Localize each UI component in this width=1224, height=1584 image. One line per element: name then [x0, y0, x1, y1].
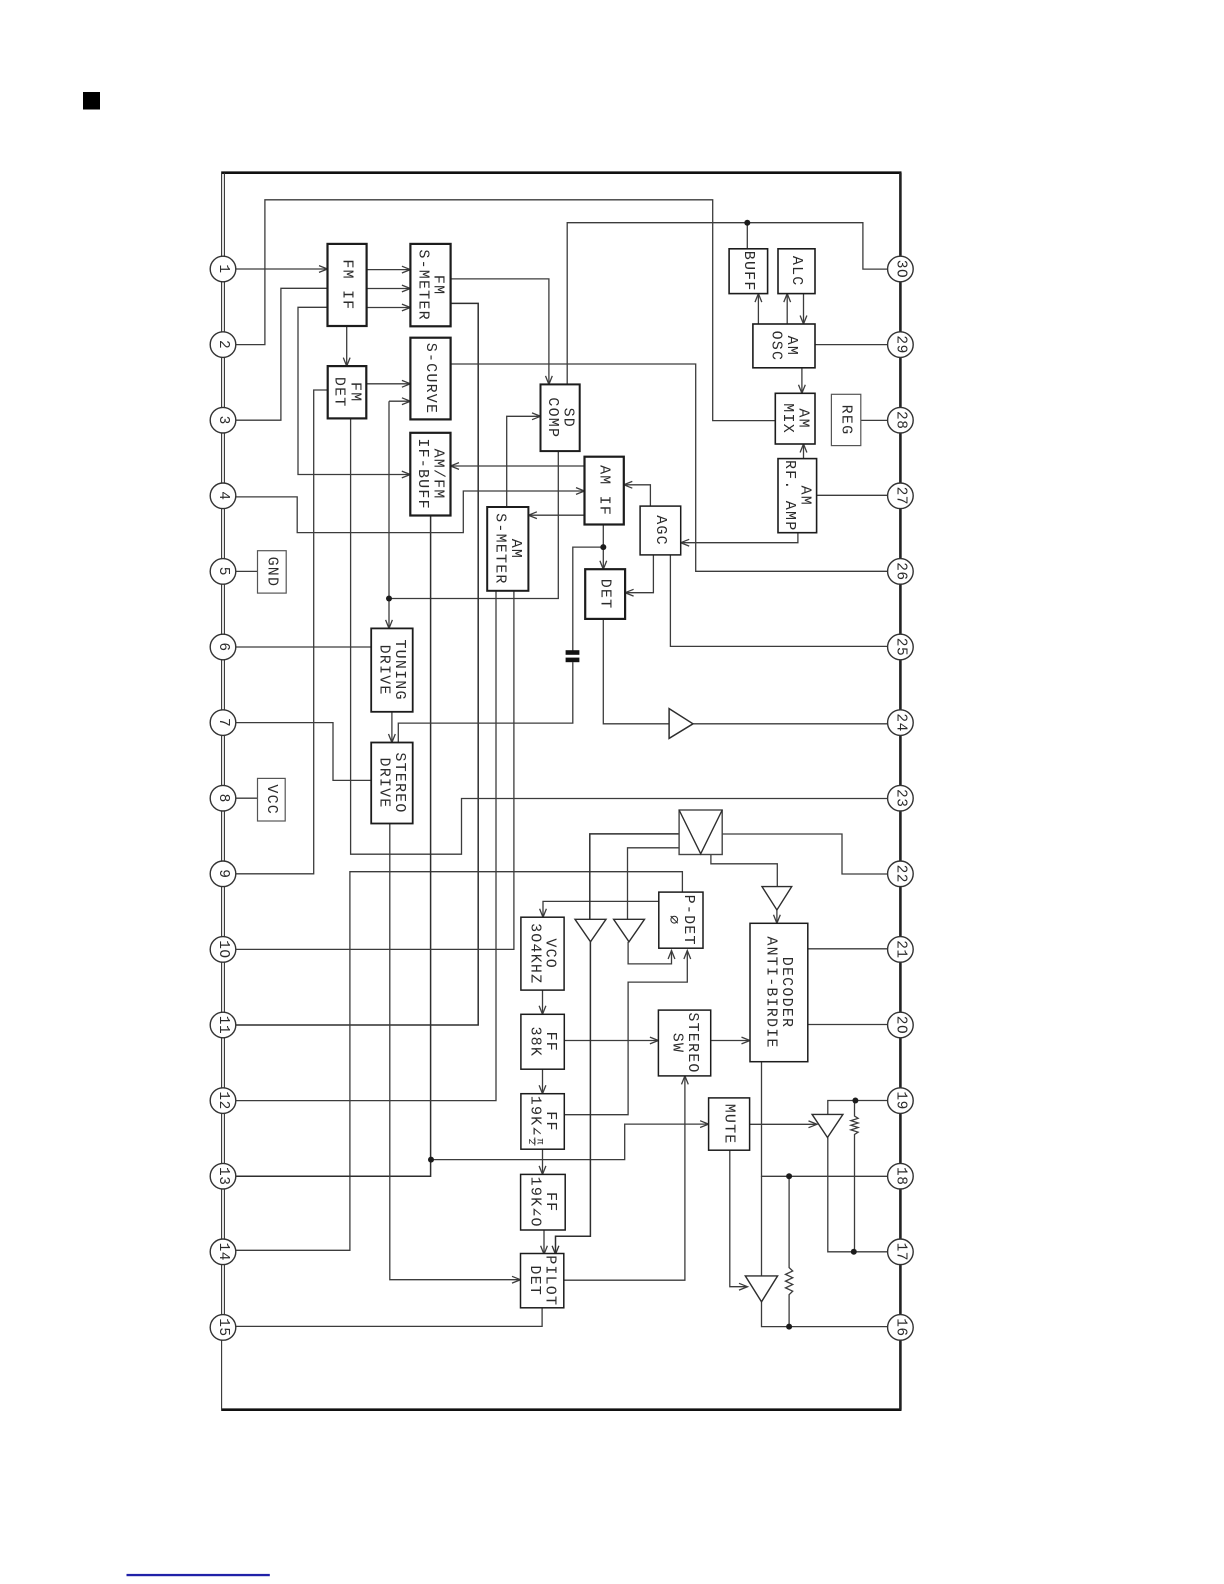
- block MUTE: [709, 1098, 750, 1150]
- svg-text:DET: DET: [331, 377, 348, 408]
- junction pin13 branch: [428, 1157, 434, 1163]
- svg-text:S-METER: S-METER: [492, 513, 509, 584]
- block ALC: [778, 249, 815, 294]
- wire DECODER to pin20: [808, 1024, 888, 1026]
- svg-text:3O4KHZ: 3O4KHZ: [526, 923, 543, 984]
- svg-text:4: 4: [215, 491, 231, 500]
- svg-text:21: 21: [892, 940, 908, 958]
- svg-text:15: 15: [215, 1318, 231, 1336]
- pin 1: [210, 256, 236, 282]
- wire AM RF AMP to AGC: [681, 533, 798, 546]
- svg-text:13: 13: [215, 1167, 231, 1185]
- pin 7: [210, 710, 236, 736]
- wire pin14 to P-DET top feed: [236, 872, 682, 1251]
- buffer amp A0 (DET to pin24): [669, 709, 693, 739]
- block DECODER ANTI-BIRDIE: [750, 923, 808, 1061]
- IC package outline right edge: [899, 173, 902, 1410]
- wire REG to pin28: [861, 419, 888, 421]
- wire AGC to pin25: [670, 555, 887, 647]
- wire FM IF to FM DET: [343, 326, 350, 366]
- svg-text:2O: 2O: [892, 1016, 908, 1034]
- svg-text:SW: SW: [668, 1033, 685, 1053]
- svg-text:DET: DET: [526, 1265, 543, 1296]
- svg-text:DECODER: DECODER: [778, 957, 795, 1028]
- amp A5 (audio out pin19/17): [812, 1114, 843, 1137]
- pin 25: [888, 634, 914, 660]
- wire AGC to DET: [625, 555, 653, 596]
- pin 26: [888, 559, 914, 585]
- svg-text:AM: AM: [797, 485, 814, 505]
- svg-text:AM: AM: [794, 408, 811, 428]
- svg-text:19: 19: [892, 1091, 908, 1109]
- wire amp A1 to PILOT DET: [552, 942, 590, 1255]
- junction AM IF out / DET: [600, 544, 606, 550]
- wire bandpass to pilot amp A1: [590, 834, 679, 919]
- wire DECODER bottom drop to amp A4: [761, 1176, 763, 1276]
- svg-text:19K∠: 19K∠: [526, 1096, 543, 1137]
- svg-text:8: 8: [215, 794, 231, 803]
- svg-text:FM IF: FM IF: [339, 259, 356, 310]
- wire amp A3 to DECODER: [774, 910, 781, 923]
- wire amp A2 to P-DET: [628, 942, 675, 964]
- svg-text:7: 7: [215, 718, 231, 727]
- wire TUNING DRIVE to STEREO DRIVE: [389, 712, 396, 743]
- wire FF 38K to STEREO SW: [564, 1037, 658, 1044]
- capacitor C1 (series in composite line): [566, 650, 580, 662]
- block STEREO SW: [658, 1010, 710, 1076]
- block VCO 304KHZ: [521, 917, 564, 990]
- pin 13: [210, 1163, 236, 1189]
- pin 2: [210, 332, 236, 358]
- wire FM S-METER to SD COMP: [451, 279, 553, 385]
- wire AM IF to IF-BUFF: [451, 463, 585, 470]
- pin 22: [888, 861, 914, 887]
- pin 14: [210, 1239, 236, 1265]
- block TUNING DRIVE: [371, 628, 413, 711]
- wire FM IF input 3 from IF-BUFF net: [298, 307, 410, 478]
- wire FF 19K pi/2 to P-DET: [564, 951, 690, 1115]
- junction pin30 net / BUFF: [744, 220, 750, 226]
- block AM OSC: [753, 324, 815, 368]
- resistor R2 (pin18-pin16): [786, 1176, 793, 1326]
- wire AM OSC to pin29: [815, 344, 888, 346]
- svg-text:29: 29: [892, 335, 908, 353]
- pin 29: [888, 332, 914, 358]
- svg-text:PILOT: PILOT: [541, 1255, 558, 1306]
- pin 9: [210, 861, 236, 887]
- svg-text:3: 3: [215, 416, 231, 425]
- wire IF-BUFF bottom / pin13 composite bus: [236, 516, 431, 1177]
- block P-DET phase: [659, 892, 703, 948]
- svg-text:AM: AM: [507, 539, 524, 559]
- block FF 38K: [521, 1014, 564, 1069]
- wire P-DET to VCO: [540, 901, 659, 917]
- svg-text:1: 1: [215, 264, 231, 273]
- wire FM IF to FM S-METER b: [367, 285, 411, 292]
- wire FF 38K to FF 19K pi/2: [539, 1069, 546, 1094]
- pin 15: [210, 1315, 236, 1341]
- wire STEREO SW to DECODER: [711, 1037, 750, 1044]
- IC package outline left edge (double line with pins): [222, 173, 225, 1410]
- pin 16: [888, 1315, 914, 1341]
- bandpass block (38kHz, box with V): [679, 810, 722, 855]
- pin 18: [888, 1163, 914, 1189]
- wire AM S-METER to SD COMP: [507, 413, 541, 507]
- block FF 19K angle pi/2: [521, 1094, 564, 1150]
- pin 19: [888, 1088, 914, 1114]
- svg-text:22: 22: [892, 865, 908, 883]
- block STEREO DRIVE: [371, 743, 413, 824]
- pin 20: [888, 1012, 914, 1038]
- svg-text:14: 14: [215, 1243, 231, 1261]
- svg-text:STEREO: STEREO: [391, 752, 408, 813]
- block BUFF: [729, 249, 768, 294]
- svg-text:S-CURVE: S-CURVE: [422, 343, 439, 414]
- wire AM IF to AM S-METER: [528, 512, 584, 519]
- amp A2 (19k chain): [614, 919, 645, 942]
- svg-text:TUNING: TUNING: [391, 639, 408, 700]
- wire AM OSC to BUFF: [755, 294, 762, 324]
- wire pin30 to SD COMP top net: [567, 223, 888, 385]
- svg-text:FF: FF: [542, 1192, 559, 1212]
- svg-text:3O: 3O: [892, 260, 908, 278]
- svg-text:25: 25: [892, 638, 908, 656]
- wire pin13 branch to MUTE: [431, 1121, 709, 1160]
- block REG: [831, 394, 860, 445]
- svg-text:2: 2: [525, 1138, 536, 1144]
- wire output buffer to pin24: [693, 723, 888, 725]
- wire capacitor net upper: [573, 547, 604, 650]
- junction R2 to pin16 line: [786, 1324, 792, 1330]
- svg-text:9: 9: [215, 869, 231, 878]
- block AGC: [640, 506, 681, 555]
- wire pin8 to VCC: [236, 797, 258, 799]
- pin 3: [210, 407, 236, 433]
- pin 23: [888, 785, 914, 811]
- svg-text:17: 17: [892, 1243, 908, 1261]
- svg-text:DRIVE: DRIVE: [376, 757, 393, 808]
- svg-text:2: 2: [215, 340, 231, 349]
- wire FM S-METER to pin11 bus: [236, 303, 478, 1025]
- block AM S-METER: [487, 507, 528, 591]
- wire pin9 to FM DET side: [236, 390, 328, 874]
- pin 10: [210, 937, 236, 963]
- svg-text:STEREO: STEREO: [684, 1012, 701, 1073]
- svg-text:27: 27: [892, 487, 908, 505]
- wire SD COMP to S-CURVE / TUNING DRIVE net: [389, 401, 558, 598]
- svg-text:18: 18: [892, 1167, 908, 1185]
- block FM DET: [328, 366, 367, 418]
- wire DECODER bottom to pin18 / amp A4: [762, 1062, 888, 1177]
- svg-text:BUFF: BUFF: [740, 251, 757, 292]
- wire FF 19K 0 to PILOT DET: [541, 1230, 548, 1254]
- svg-text:ALC: ALC: [788, 256, 805, 287]
- resistor R1 (pin19-pin17): [851, 1101, 858, 1252]
- section bullet square: [83, 92, 100, 110]
- wire pin2 to AM MIX input bus: [236, 200, 775, 421]
- wire DECODER to pin21: [808, 948, 888, 950]
- svg-text:16: 16: [892, 1318, 908, 1336]
- svg-text:24: 24: [892, 713, 908, 731]
- IC package outline top edge: [221, 171, 901, 174]
- wire pin1 to FM IF input: [236, 266, 328, 273]
- svg-text:12: 12: [215, 1091, 231, 1109]
- svg-text:RF. AMP: RF. AMP: [781, 460, 798, 531]
- wire pin3 to FM IF input 2: [236, 288, 328, 420]
- wire pin10 to AM S-METER: [236, 591, 514, 950]
- wire S-CURVE input arrow stub: [389, 398, 410, 405]
- svg-text:AGC: AGC: [652, 515, 669, 546]
- wire pin5 to GND: [236, 570, 258, 572]
- wire FM DET to S-CURVE: [366, 380, 410, 387]
- IC package outline bottom edge: [221, 1408, 901, 1411]
- wire MUTE to amp A4: [730, 1150, 748, 1290]
- svg-text:MUTE: MUTE: [721, 1104, 738, 1145]
- wire amp A4 out to pin16: [762, 1302, 888, 1327]
- pin 5: [210, 559, 236, 585]
- svg-text:VCC: VCC: [263, 784, 280, 815]
- wire pin15 to PILOT DET: [236, 1308, 542, 1327]
- wire S-CURVE to pin26 bus: [451, 364, 888, 571]
- pin 21: [888, 937, 914, 963]
- svg-text:COMP: COMP: [544, 397, 561, 438]
- svg-text:DRIVE: DRIVE: [376, 645, 393, 696]
- wire FM DET bottom to pin23 bus: [351, 418, 888, 854]
- wire STEREO DRIVE to PILOT DET: [390, 824, 521, 1284]
- block PILOT DET: [521, 1254, 564, 1308]
- block AM MIX: [775, 393, 815, 444]
- svg-text:5: 5: [215, 567, 231, 576]
- wire BUFF top drop from pin30 net: [746, 223, 748, 249]
- svg-text:IF-BUFF: IF-BUFF: [414, 438, 431, 509]
- svg-text:ANTI-BIRDIE: ANTI-BIRDIE: [763, 936, 780, 1048]
- block VCC: [258, 778, 286, 821]
- svg-text:P-DET: P-DET: [680, 895, 697, 946]
- amp A3 (decoder feed): [762, 887, 792, 910]
- svg-text:MIX: MIX: [779, 403, 796, 434]
- svg-text:REG: REG: [838, 405, 855, 436]
- amp A4 (audio out pin18/16): [745, 1276, 777, 1302]
- block DET: [585, 569, 625, 619]
- block AM IF: [585, 457, 624, 525]
- wire pin7 to STEREO DRIVE: [236, 723, 371, 781]
- wire FM IF to FM S-METER c: [367, 304, 411, 311]
- svg-text:6: 6: [215, 642, 231, 651]
- junction R1 to pin17 line: [851, 1249, 857, 1255]
- wire PILOT DET to STEREO SW: [564, 1076, 689, 1280]
- pin 4: [210, 483, 236, 509]
- wire ALC-OSC link b: [800, 294, 807, 324]
- svg-text:GND: GND: [263, 557, 280, 588]
- wire VCO to FF 38K: [539, 990, 546, 1014]
- svg-text:SD: SD: [559, 408, 576, 428]
- wire TUNING DRIVE input stub: [386, 599, 393, 629]
- svg-text:FF: FF: [542, 1111, 559, 1131]
- block AM RF.AMP: [778, 459, 817, 533]
- wire FM IF to FM S-METER a: [367, 266, 411, 273]
- wire bandpass to 19k amp A2: [628, 848, 680, 920]
- wire AM IF to DET: [600, 525, 607, 570]
- pin 30: [888, 256, 914, 282]
- block FM IF: [328, 244, 367, 326]
- wire DET to output buffer: [603, 619, 669, 724]
- block FF 19K angle 0: [521, 1174, 566, 1230]
- block AM/FM IF-BUFF: [410, 433, 450, 516]
- svg-text:AM/FM: AM/FM: [430, 449, 447, 500]
- block S-CURVE: [410, 338, 450, 420]
- pin 17: [888, 1239, 914, 1265]
- wire amp A5 top to pin19: [828, 1101, 888, 1115]
- wire pin6 to TUNING DRIVE: [236, 646, 371, 648]
- footer underline (link): [127, 1574, 270, 1576]
- svg-text:DET: DET: [597, 579, 614, 610]
- pin 8: [210, 785, 236, 811]
- wire STEREO DRIVE top stub to capacitor net: [398, 662, 573, 742]
- wire pin4 composite net: [236, 488, 585, 533]
- pin 27: [888, 483, 914, 509]
- svg-text:OSC: OSC: [768, 331, 785, 362]
- wire MUTE to amp A5: [750, 1121, 817, 1128]
- wire bandpass to decoder amp A3: [711, 855, 777, 887]
- wire pin12 to AM S-METER: [236, 591, 496, 1101]
- svg-text:28: 28: [892, 411, 908, 429]
- svg-text:S-METER: S-METER: [414, 249, 431, 320]
- svg-text:11: 11: [215, 1016, 231, 1034]
- junction pin18 net: [786, 1173, 792, 1179]
- wire AGC to AM IF: [624, 481, 651, 506]
- svg-text:19K∠O: 19K∠O: [527, 1177, 544, 1228]
- svg-text:AM: AM: [783, 336, 800, 356]
- pin 12: [210, 1088, 236, 1114]
- block FM S-METER: [410, 244, 450, 326]
- junction pin19 net: [852, 1098, 858, 1104]
- wire AM OSC to AM MIX: [799, 368, 806, 394]
- block GND: [258, 551, 287, 593]
- pin 28: [888, 407, 914, 433]
- svg-text:23: 23: [892, 789, 908, 807]
- wire FF 19K pi/2 to FF 19K 0: [539, 1149, 546, 1174]
- svg-text:FF: FF: [542, 1032, 559, 1052]
- svg-text:26: 26: [892, 562, 908, 580]
- svg-text:FM: FM: [346, 382, 363, 402]
- junction S-CURVE/TUNING net: [386, 596, 392, 602]
- wire AM RF AMP to pin27: [817, 494, 888, 496]
- pin 11: [210, 1012, 236, 1038]
- wire AM RF AMP to AM MIX: [800, 444, 807, 459]
- svg-text:1O: 1O: [215, 940, 231, 958]
- wire bandpass to pin22: [722, 834, 888, 874]
- block SD COMP: [541, 384, 580, 451]
- wire amp A5 out to pin17: [828, 1138, 888, 1252]
- svg-text:38K: 38K: [526, 1026, 543, 1057]
- svg-text:AM IF: AM IF: [596, 465, 613, 516]
- pin 24: [888, 710, 914, 736]
- pin 6: [210, 634, 236, 660]
- wire ALC-OSC link a: [784, 294, 791, 324]
- svg-text:∅: ∅: [665, 915, 682, 925]
- amp A1 (pilot chain): [575, 919, 606, 942]
